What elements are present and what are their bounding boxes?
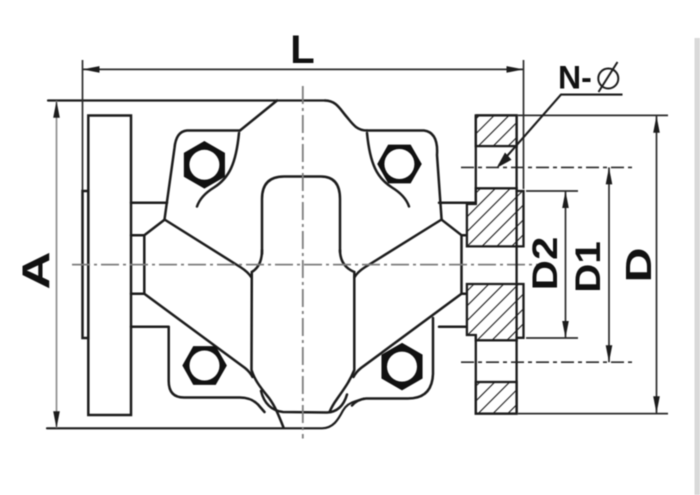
hex bolt B3 [183, 347, 226, 384]
upper-right lobe [367, 131, 442, 220]
left flange raised face [83, 191, 89, 338]
upper-left lobe inner corner [197, 133, 239, 207]
svg-text:N-: N- [558, 60, 592, 96]
lower-left lobe [169, 328, 265, 412]
phi symbol [598, 62, 618, 92]
D arrowheads [653, 116, 660, 133]
svg-text:D2: D2 [526, 237, 565, 291]
D2 bottom extension [526, 337, 578, 339]
leader arrowhead [497, 153, 512, 169]
right flange plate faces [476, 115, 517, 413]
dimension D1 line [608, 167, 610, 362]
left bore top line [131, 234, 144, 237]
dimension A line [56, 101, 58, 428]
left body waist edge [143, 235, 146, 294]
L arrowheads [83, 66, 100, 73]
hex bolt B4 [382, 344, 422, 390]
svg-text:L: L [290, 28, 314, 72]
svg-text:D1: D1 [568, 241, 607, 292]
right flange mid lower section [467, 284, 524, 340]
D1 arrowheads [606, 167, 613, 184]
right waist top bevel [442, 220, 462, 236]
bolt hole centerline bottom [461, 361, 633, 363]
left inlet boss bottom line [131, 325, 169, 328]
leader line N-phi [499, 95, 623, 166]
central boss U bottom [261, 391, 347, 413]
upper-left rib diagonal [165, 220, 252, 278]
upper-left lobe [165, 131, 241, 220]
dome right flare and column side [330, 250, 355, 412]
right outlet boss top line [439, 201, 476, 204]
right flange bottom block [476, 382, 517, 414]
body top left shoulder [240, 101, 277, 131]
right outlet boss bottom line [439, 325, 476, 328]
body top right shoulder [325, 101, 367, 131]
svg-text:D: D [619, 247, 659, 282]
cover dome [262, 177, 340, 255]
lower-right rib diagonal [354, 294, 462, 377]
body bottom plate [47, 399, 364, 429]
D2 arrowheads [562, 191, 569, 208]
body top plate line [48, 99, 325, 101]
A arrowheads [53, 101, 60, 118]
D top extension [518, 114, 668, 116]
dimension L line [83, 68, 524, 70]
lower-right lobe [352, 318, 433, 406]
svg-text:A: A [14, 251, 58, 289]
upper-right lobe inner corner [367, 133, 409, 207]
upper-right rib diagonal [354, 220, 441, 278]
dome left flare and column side [252, 250, 284, 428]
L left extension [82, 60, 84, 190]
right bore top line [462, 234, 476, 237]
D bottom extension [518, 413, 668, 415]
hex bolt B1 [185, 142, 225, 188]
L right extension [523, 60, 525, 189]
left inlet boss top line [131, 201, 167, 204]
right flange top block [476, 115, 517, 146]
hex bolt B2 [378, 145, 421, 182]
right bore bottom line [462, 293, 476, 296]
right flange mid upper section [467, 188, 524, 246]
lower-left rib diagonal [144, 294, 252, 377]
dimension D2 line [565, 191, 567, 338]
left waist top bevel [144, 220, 164, 236]
bolt hole centerline top [461, 166, 633, 168]
dimension D line [656, 116, 658, 413]
page edge strip [695, 38, 700, 495]
left flange plate [88, 116, 131, 416]
D2 top extension [526, 190, 578, 192]
vertical centerline [302, 86, 304, 439]
left bore bottom line [131, 293, 144, 296]
right body waist edge [460, 235, 463, 294]
horizontal centerline [72, 264, 545, 266]
